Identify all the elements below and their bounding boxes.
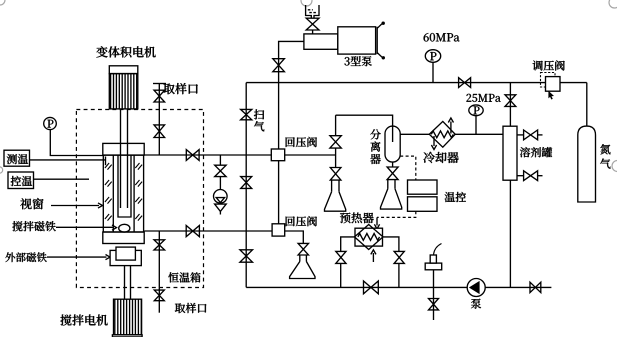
label 60MPa: [424, 33, 460, 41]
valve (separator loop lower): [330, 168, 341, 181]
wire tank bottom: [509, 180, 511, 287]
safety head: [425, 244, 442, 288]
valve (tank feed): [505, 95, 516, 107]
vessel right wall inner line: [133, 155, 135, 232]
label 泵: [471, 299, 481, 309]
label 控温 box: [8, 172, 34, 189]
valve (tank branch 2): [524, 171, 538, 181]
separator bottom line: [392, 162, 394, 167]
pipe top main: [246, 82, 587, 84]
selection handle top-center: [301, 0, 312, 6]
pipe separator to cooler: [400, 133, 429, 135]
valve (separator bottom): [387, 167, 398, 180]
pipe bottom main: [246, 286, 551, 288]
drain below safety head: [433, 287, 435, 320]
tank branch 1: [517, 134, 543, 136]
collection flask 2: [381, 180, 402, 210]
valve (sampling top 2): [154, 125, 165, 138]
vessel glass wall hatching: [105, 163, 142, 221]
mouse cursor: [548, 91, 554, 100]
sampling port 取样口 (top) line: [153, 84, 166, 156]
motor shaft (lower): [125, 266, 131, 300]
selection handle left-middle: [0, 167, 3, 173]
label 取样口 (top): [163, 83, 197, 94]
preheater 预热器: [355, 225, 384, 250]
label 恒温箱: [168, 272, 200, 282]
pump 3型泵 large body: [338, 27, 377, 54]
valve (drain branch): [215, 165, 226, 176]
regulator 调压阀: [541, 73, 561, 92]
funnel below trap: [215, 204, 227, 214]
valve (bottom main): [364, 281, 379, 294]
valve (preheater left): [336, 251, 346, 263]
constant-temperature box 恒温箱 (dashed): [76, 110, 203, 288]
temperature controller 温控: [408, 180, 438, 211]
label 预热器: [340, 213, 374, 224]
label 搅拌磁铁: [12, 221, 55, 231]
label 取样口 (bottom): [175, 303, 207, 313]
valve (lower line): [240, 250, 253, 262]
feed beaker: [306, 5, 319, 18]
arrow 视窗 to vessel: [51, 203, 103, 208]
valve (vessel bottom outlet): [186, 226, 199, 237]
label 变体积电机: [96, 46, 155, 57]
sampling port 取样口 (bottom) line: [158, 231, 160, 313]
solvent tank 溶剂罐: [503, 126, 517, 180]
pressure gauge 60MPa: [425, 50, 440, 83]
selection handle top-right: [609, 0, 617, 8]
label 搅拌电机: [60, 314, 107, 325]
selection handle top-left: [0, 0, 5, 5]
vessel body: [103, 155, 143, 232]
valve (flask 3): [298, 243, 308, 255]
valve (sampling top 1): [154, 90, 165, 102]
label 回压阀 (bottom): [286, 216, 317, 226]
drain line to trap: [219, 177, 221, 190]
selection handle right-middle: [612, 161, 617, 172]
trap circle: [214, 190, 228, 204]
vessel left wall inner line: [112, 155, 114, 232]
preheater left branch: [341, 237, 355, 288]
label 回压阀 (top): [286, 137, 317, 147]
external magnet 外部磁铁 block: [110, 247, 141, 266]
pipe to nitrogen bottle: [586, 83, 588, 127]
label 扫气: [254, 109, 264, 131]
pipe vessel top outlet: [144, 154, 271, 156]
valve (top main): [459, 78, 471, 88]
preheater right branch: [383, 237, 399, 288]
signal controller to preheater (dashed): [377, 211, 416, 217]
wire to solvent tank: [509, 83, 511, 127]
valve (vessel top outlet): [186, 150, 199, 161]
valve (preheater right): [394, 251, 404, 263]
label 冷却器: [423, 152, 458, 163]
valve (sampling bottom 1): [154, 240, 165, 250]
label 溶剂罐: [520, 147, 552, 157]
label 测温 box: [4, 150, 30, 166]
pump 3型泵 small body: [304, 34, 338, 49]
label 3型泵: [344, 56, 371, 66]
label 温控: [445, 192, 466, 202]
wire 控温: [34, 178, 90, 180]
arrow 外部磁铁 to magnet: [47, 255, 110, 260]
valve (pump3 suction): [273, 59, 285, 72]
collection flask 1: [325, 180, 346, 211]
valve (tank branch 1): [524, 130, 538, 140]
pipe vessel bottom outlet: [144, 230, 272, 232]
pressure gauge P (vessel): [44, 117, 57, 129]
drain branch line: [219, 155, 221, 165]
stirring motor 搅拌电机 (hatched): [112, 299, 142, 337]
signal separator to controller (dashed): [400, 156, 416, 180]
pipe to separator branch: [285, 154, 336, 156]
cooler 冷却器: [429, 118, 455, 150]
wire feed to pump: [312, 30, 314, 34]
label 视窗: [20, 198, 43, 209]
valve (feed): [306, 18, 319, 30]
nitrogen bottle 氮气: [578, 126, 596, 202]
wire pump3 suction: [279, 41, 304, 149]
label 氮气: [600, 144, 610, 168]
tank branch 2: [517, 175, 543, 177]
vessel inner shaft: [121, 143, 128, 208]
arrow into preheater bottom: [371, 250, 376, 262]
pipe cooler to tank: [455, 133, 503, 135]
valve (separator loop upper): [330, 136, 341, 148]
wire square2 to flask: [285, 231, 304, 243]
motor 变体积电机 (hatched body): [109, 66, 138, 109]
valve (sampling bottom 2): [154, 290, 164, 301]
stirring magnet ellipse: [119, 224, 130, 232]
pressure gauge 25MPa: [469, 105, 483, 134]
wire loop mid: [335, 148, 337, 167]
sweep-gas line 扫气: [245, 83, 247, 288]
motor shaft (upper): [121, 109, 128, 143]
wire gauge to vessel: [50, 130, 104, 156]
vessel bottom flange: [103, 232, 144, 244]
valve (pump outlet): [530, 282, 541, 292]
label 25MPa: [466, 94, 500, 102]
signal arrow into preheater: [374, 217, 379, 228]
circulation pump 泵: [467, 279, 485, 297]
wire between back-pressure valves: [278, 161, 280, 224]
separator loop line: [336, 115, 393, 135]
valve (sweep gas): [241, 109, 252, 119]
vessel top flange: [103, 143, 144, 155]
back-pressure valve 回压阀 (top): [271, 149, 284, 161]
back-pressure valve 回压阀 (bottom): [272, 224, 285, 236]
separator 分离器 vessel: [385, 126, 400, 162]
valve (drain): [429, 299, 439, 310]
label 调压阀: [533, 60, 565, 70]
label 外部磁铁: [5, 252, 46, 262]
pump 3型泵 terminals: [377, 22, 385, 60]
vessel inner tube: [118, 155, 131, 217]
arrow 搅拌磁铁 to magnet: [56, 225, 117, 230]
collection flask 3: [290, 255, 315, 279]
wire 测温 to vessel: [30, 157, 106, 166]
valve (mid line): [241, 177, 252, 189]
label 分离器: [370, 129, 380, 164]
